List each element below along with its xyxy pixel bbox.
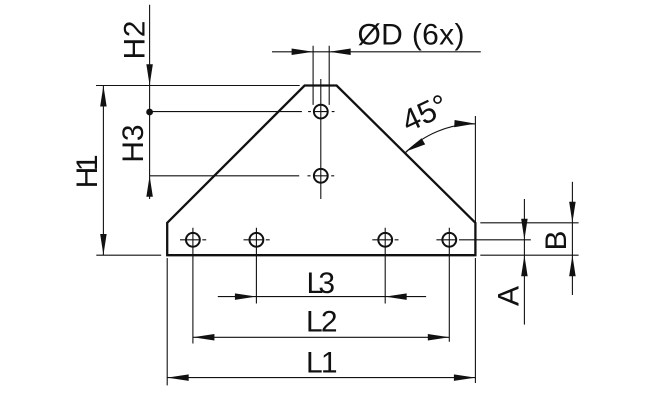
dimension H1 line [102,86,104,256]
hole top row 2 [314,169,328,183]
L3 arrow left-pointing [385,293,407,300]
svg-text:L1: L1 [306,346,338,379]
L2 arrow left-pointing [193,334,215,341]
centerline hole D with extension to A dim line [436,228,530,342]
dimension B line [571,182,573,295]
extension line right chamfer corner [480,222,578,224]
horizontal centerline hole 2 with extension to H dim line [150,175,335,177]
extension line top edge left [96,85,300,87]
hole bottom A [186,233,200,247]
svg-text:A: A [493,286,526,306]
dimension H1 arrow down [100,234,107,255]
dimension L2 line [193,336,449,338]
arc arrow at chamfer edge [405,138,425,152]
dimension H3 arrow up to row 2 [146,176,153,197]
dimension H3 origin dot [146,109,153,116]
L3 arrow right-pointing [235,293,257,300]
label H1 [71,154,104,188]
svg-text:L2: L2 [306,305,338,338]
diameter arrow left-pointing [329,49,351,56]
extension line left corner down [166,258,168,385]
dimension A arrow down [521,219,528,240]
svg-text:H3: H3 [117,124,150,162]
dimension A arrow up [521,255,528,276]
diameter arrow right-pointing [292,49,314,56]
centerline hole A [180,228,206,344]
dimension B arrow up [569,255,576,276]
arc arrow at vertical line [454,120,475,127]
dimension B arrow down [569,202,576,223]
extension lines hole diameter [313,46,329,105]
dimension L3 line [218,296,426,298]
label B [540,230,573,250]
svg-text:H2: H2 [118,21,151,60]
extension line right bottom edge [480,254,578,256]
label L2 [306,305,338,338]
L1 arrow right-pointing [454,374,476,381]
hole bottom C [378,233,392,247]
label H3 [117,124,150,162]
L1 arrow left-pointing [167,374,189,381]
hole bottom B [250,233,264,247]
extension line 45 degree vertical reference [474,116,476,222]
svg-text:H1: H1 [71,154,104,188]
dimension H2 H3 shared line [149,5,151,199]
dimension 45 degree arc [405,124,475,153]
horizontal centerline hole 1 with extension to H dim line [150,111,335,113]
extension line right corner down [474,258,476,383]
vertical centerline through top holes [320,79,322,199]
dimension H2 arrow down to top edge [146,64,153,85]
svg-text:B: B [540,230,573,250]
label A [493,286,526,306]
dimension L1 line [167,377,475,379]
svg-text:ØD (6x): ØD (6x) [358,19,465,52]
dimension H1 arrow up [100,86,107,107]
label L3 [307,267,336,300]
label diameter D 6x [358,19,465,52]
centerline hole C [372,228,398,304]
dimension hole diameter line [272,51,481,53]
extension line bottom edge left [96,254,161,256]
plate outline [167,86,475,256]
label 45 degrees [396,87,453,139]
svg-text:L3: L3 [307,267,336,300]
hole top row 1 [314,105,328,119]
label L1 [306,346,338,379]
L2 arrow right-pointing [428,334,450,341]
dimension A line [523,199,525,325]
hole bottom D [442,233,456,247]
label H2 [118,21,151,60]
centerline hole B [244,228,270,304]
